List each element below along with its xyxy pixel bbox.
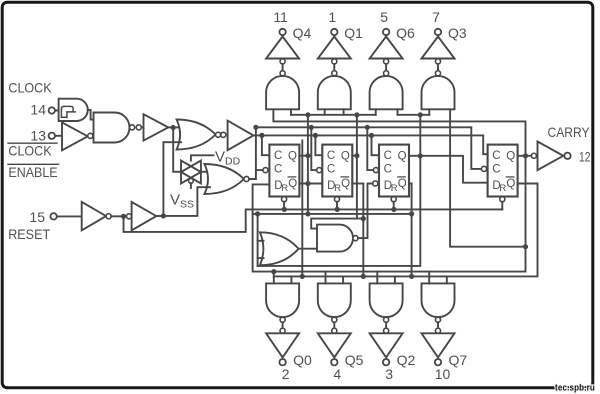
wire C to FF1 (262, 135, 270, 155)
wire OR U10 input stub lower (258, 257, 264, 259)
wire FF3 Q vertical to bottom line (258, 115, 421, 266)
wire bubble link Q5 (333, 322, 335, 328)
wire C-bar to FF2 (311, 127, 316, 170)
FF4 reset bubble (500, 197, 505, 202)
svg-text:Q: Q (341, 178, 350, 190)
wire C to FF4 (483, 135, 487, 154)
wire line B gate1L feed (273, 109, 525, 271)
svg-text:Q4: Q4 (293, 25, 312, 41)
wire bubble link Q4 (282, 64, 284, 71)
output inverter Q5 input bubble (332, 328, 337, 333)
gate G2 output bubble (332, 71, 337, 76)
svg-text:Q: Q (506, 151, 515, 163)
wire C to FF2 (315, 135, 322, 155)
svg-text:Q: Q (288, 151, 297, 163)
svg-text:C: C (384, 150, 392, 162)
wire bubble link Q3 (437, 64, 439, 71)
schmitt trigger buffer U1 (59, 99, 88, 121)
FF4 labels (492, 150, 515, 194)
svg-text:4: 4 (333, 366, 341, 382)
inverter U8 output bubble (106, 214, 111, 219)
wire pin13 to inverter U3 (55, 135, 62, 137)
wire H1 left stub (273, 272, 275, 284)
pin 1 terminal (331, 29, 337, 35)
node reset junction B (161, 213, 166, 218)
OR U5 output bubble (216, 132, 221, 137)
output inverter Q2 input bubble (384, 328, 389, 333)
svg-text:5: 5 (380, 9, 388, 25)
output inverter Q1 (333, 35, 335, 37)
wire G2 left stub (324, 109, 326, 115)
FF3 labels (384, 150, 407, 194)
inverter Q6 input bubble (384, 59, 389, 64)
svg-text:Q: Q (506, 178, 515, 190)
wire U10 out to NAND U11 (299, 248, 317, 250)
FF2 reset bubble (334, 197, 339, 202)
flip-flop FF3 (379, 145, 409, 197)
wire G1 left stub (290, 109, 292, 115)
wire G3 right stub (397, 109, 399, 115)
wire schmitt out to NAND U2 (88, 110, 94, 120)
wire FF4 Qbar out (274, 184, 538, 277)
pin 11 terminal (279, 29, 285, 35)
svg-text:R: R (391, 183, 398, 194)
svg-text:7: 7 (432, 9, 440, 25)
AND gate H2 (318, 283, 351, 317)
pin 3 terminal (383, 359, 389, 365)
inverter Q1 input bubble (332, 59, 337, 64)
wire bubble link Q2 (385, 322, 387, 328)
pin 2 terminal (279, 359, 285, 365)
OR gate U5 (177, 120, 216, 150)
carry inverter input bubble (531, 153, 536, 158)
svg-text:Q2: Q2 (397, 352, 416, 368)
wire FF3 Q out to FF4 D (409, 156, 488, 183)
svg-text:C: C (274, 150, 282, 162)
svg-text:Q6: Q6 (396, 25, 415, 41)
node FF1 Q (305, 153, 310, 158)
svg-text:10: 10 (435, 366, 451, 382)
flip-flop FF4 (488, 145, 518, 197)
wire U8 to buffer U9 (111, 215, 126, 217)
wire H1 right stub (290, 276, 292, 283)
svg-text:Q5: Q5 (345, 352, 364, 368)
wire VDD stub (191, 155, 214, 160)
AND gate G3 (370, 76, 403, 109)
wire bubble link Q7 (437, 322, 439, 328)
node FF3 Q (418, 153, 423, 158)
wire U11 out to FF3 D (358, 184, 373, 239)
svg-text:15: 15 (29, 209, 45, 225)
wire H2 left stub (325, 272, 327, 284)
wire G2 right stub (343, 109, 345, 115)
carry inverter U12 (538, 142, 564, 171)
node A FF3Q (418, 112, 423, 117)
node A FF1Q (305, 112, 310, 117)
svg-text:1: 1 (328, 9, 336, 25)
wire H3 left stub (376, 272, 378, 284)
wire junction B to OR U7 lower input (163, 187, 210, 216)
flip-flop FF1 (269, 145, 299, 197)
svg-text:ENABLE: ENABLE (8, 165, 57, 180)
inverter U3 output bubble (88, 133, 93, 138)
node FF2 Qbar bottom tap (361, 274, 366, 279)
buffer U6 (228, 121, 254, 151)
wire U7 out riser to C-bar line (249, 127, 256, 179)
wire FF3 Qbar vertical (411, 184, 413, 277)
node loop OR tap (255, 211, 260, 216)
wire bubble link Q1 (333, 64, 335, 71)
wire H4 right stub (446, 276, 448, 283)
inverter U3 (62, 122, 88, 150)
FF1 reset stub (283, 202, 285, 210)
svg-text:2: 2 (282, 366, 290, 382)
buffer U9 input bubble (126, 214, 131, 219)
wire FF3 Qbar out (409, 183, 412, 185)
node bottom line FF1 tap (300, 274, 305, 279)
node C FF2 (313, 133, 318, 138)
FF3 reset bubble (391, 197, 396, 202)
FF3 reset stub (393, 202, 395, 210)
output inverter Q4 (282, 35, 284, 37)
svg-text:12: 12 (579, 149, 591, 165)
AND gate G1 (266, 76, 299, 109)
AND gate G2 (318, 76, 351, 109)
FF4 C-bar input bubble (481, 166, 486, 171)
buffer U4 (144, 114, 169, 140)
label CLOCK ENABLE overline 1 (8, 142, 57, 144)
svg-text:C: C (384, 164, 392, 176)
FF4 reset stub (501, 202, 503, 210)
node reset FF1 (282, 207, 287, 212)
svg-text:Q1: Q1 (344, 25, 363, 41)
svg-text:R: R (281, 183, 288, 194)
gate H2 output bubble (332, 317, 337, 322)
wire reset distribution line (124, 209, 503, 232)
svg-text:C: C (327, 150, 335, 162)
wire FF4 Q out to carry (518, 155, 532, 157)
wire bottom line L3 (253, 214, 526, 272)
wire FF1 Q vertical (307, 115, 309, 214)
svg-text:CLOCK: CLOCK (8, 144, 51, 159)
svg-text:Q: Q (288, 178, 297, 190)
svg-text:R: R (499, 183, 506, 194)
gate H4 output bubble (435, 317, 440, 322)
buffer U9 (132, 202, 157, 230)
wire FF1 D feedback (253, 184, 412, 214)
wire FF2 Qbar vertical (362, 184, 364, 277)
wire FF2 Qbar out (352, 183, 363, 185)
TG1 bubble stub (190, 183, 192, 188)
svg-text:C: C (327, 164, 335, 176)
node C-bar FF2 (309, 125, 314, 130)
OR gate U10 (260, 232, 299, 265)
pin 10 terminal (435, 359, 441, 365)
svg-text:11: 11 (273, 9, 288, 25)
node C FF1 (259, 133, 264, 138)
inverter U8 (82, 202, 106, 230)
FF1 C-bar input bubble (263, 168, 268, 173)
svg-text:CARRY: CARRY (548, 125, 590, 140)
svg-text:Q: Q (341, 151, 350, 163)
gate G4 output bubble (435, 71, 440, 76)
gate G1 output bubble (280, 71, 285, 76)
svg-text:Q7: Q7 (449, 352, 468, 368)
output inverter Q0 input bubble (280, 328, 285, 333)
FF3 D input bubble (373, 181, 378, 186)
node C-bar FF3 (365, 125, 370, 130)
NAND gate U2 (94, 113, 130, 143)
inverter Q3 input bubble (435, 59, 440, 64)
FF2 reset stub (336, 202, 338, 210)
node loop FF1 tap (305, 211, 310, 216)
wire bubble to buffer U4 (141, 126, 143, 128)
wire pin15 to inverter U8 (57, 215, 82, 217)
transmission gate TG1 (181, 161, 201, 184)
FF2 labels (327, 150, 350, 194)
node FF3 Qbar bottom tap (409, 274, 414, 279)
node L3 gate1 tap (271, 269, 276, 274)
output inverter Q6 (385, 35, 387, 37)
pin 5 terminal (383, 29, 389, 35)
AND gate H4 (422, 283, 455, 317)
node C-bar left (253, 125, 258, 130)
label CLOCK ENABLE overline 2 (8, 163, 59, 165)
pin 13 terminal (49, 133, 55, 139)
svg-text:3: 3 (385, 366, 393, 382)
svg-text:Q0: Q0 (293, 352, 312, 368)
node FF1 Qbar (305, 181, 310, 186)
buffer U4 input bubble (136, 125, 141, 130)
wire U4 out to OR U5 (168, 126, 181, 128)
wire clock line C (253, 134, 483, 136)
wire C to FF3 (372, 135, 380, 155)
wire bubble link Q0 (282, 322, 284, 328)
wire line A segment 2 (398, 114, 430, 116)
NAND U2 output bubble (130, 125, 135, 130)
wire OR U10 input stub upper (258, 240, 264, 242)
wire TG1 to OR U7 (201, 171, 210, 173)
AND gate H1 (266, 283, 299, 317)
FF1 reset bubble (282, 197, 287, 202)
FF1 labels (274, 150, 297, 194)
node reset FF3 (391, 207, 396, 212)
pin 4 terminal (331, 359, 337, 365)
output inverter Q3 (437, 35, 439, 37)
wire H4 left stub (428, 272, 430, 284)
svg-text:CLOCK: CLOCK (8, 81, 51, 96)
gate G3 output bubble (384, 71, 389, 76)
output inverter Q5 (318, 333, 351, 357)
output inverter Q2 (370, 333, 403, 357)
node clock junction (171, 125, 176, 130)
inverter Q4 input bubble (280, 59, 285, 64)
output inverter Q0 (266, 333, 299, 357)
wire pin14 to schmitt (55, 110, 59, 112)
wire gate4R long feed (450, 109, 525, 246)
svg-text:Q: Q (398, 178, 407, 190)
node line B carry tap (523, 153, 528, 158)
gate H1 output bubble (280, 317, 285, 322)
wire U11 top input loop (311, 219, 363, 229)
flip-flop FF2 (322, 145, 352, 197)
node A FF2Q (354, 112, 359, 117)
wire H2 right stub (342, 276, 344, 283)
wire G3 left stub (375, 109, 377, 115)
NAND gate U11 (317, 225, 353, 252)
wire FF1 Q out (299, 155, 308, 157)
pin 7 terminal (435, 29, 441, 35)
wire auxiliary vertical right of FF1 (301, 141, 303, 277)
node reset junction A (121, 214, 126, 219)
wire C-bar to FF4 (471, 127, 481, 169)
pin 12 terminal (564, 153, 570, 159)
buffer U6 input bubble (221, 132, 226, 137)
svg-text:C: C (492, 164, 500, 176)
wire H3 right stub (394, 276, 396, 283)
output inverter Q7 input bubble (435, 328, 440, 333)
node C FF3 (369, 133, 374, 138)
FF3 C-bar input bubble (373, 168, 378, 173)
svg-text:C: C (492, 150, 500, 162)
OR gate U7 (205, 164, 244, 194)
wire FF2 Q out (352, 155, 357, 157)
svg-text:C: C (274, 164, 282, 176)
wire junction B up to OR U5 lower input (163, 142, 181, 216)
gate H3 output bubble (384, 317, 389, 322)
wire FF1 Qbar to FF2 D (299, 183, 322, 185)
FF2 C-bar input bubble (317, 168, 322, 173)
svg-text:RESET: RESET (8, 227, 50, 242)
wire C-bar to FF3 (367, 127, 372, 170)
AND gate G4 (422, 76, 455, 109)
node FF2 Qbar loop tap (361, 216, 366, 221)
output inverter Q7 (422, 333, 455, 357)
pin 14 terminal (49, 107, 55, 113)
wire branch to FF1 C-bar input (256, 169, 263, 171)
wire junction down to transmission gate (173, 128, 181, 172)
wire clock line C-bar (256, 126, 471, 128)
svg-text:Q: Q (398, 151, 407, 163)
svg-text:Q3: Q3 (448, 25, 467, 41)
pin 15 terminal (50, 213, 56, 219)
node reset FF2 (335, 207, 340, 212)
node line B gate4R tap (523, 244, 528, 249)
svg-text:14: 14 (30, 102, 46, 118)
wire line A segment 1 (291, 114, 376, 116)
svg-text:13: 13 (30, 128, 46, 144)
NAND U11 output bubble (353, 236, 358, 241)
TG1 gate bubble (189, 178, 194, 183)
svg-text:tec.spb.ru: tec.spb.ru (555, 383, 595, 394)
AND gate H3 (370, 283, 403, 317)
wire bubble link Q6 (385, 64, 387, 71)
node FF2 Q (354, 153, 359, 158)
svg-text:R: R (334, 183, 341, 194)
node FF3 Qbar loop tap (409, 211, 414, 216)
wire OR U10 feed vertical (257, 214, 259, 266)
wire U9 out (156, 215, 165, 217)
svg-text:VSS: VSS (170, 192, 194, 211)
OR U7 output bubble (244, 176, 249, 181)
wire G4 left stub (428, 109, 430, 115)
wire FF2 Q vertical (356, 115, 358, 219)
